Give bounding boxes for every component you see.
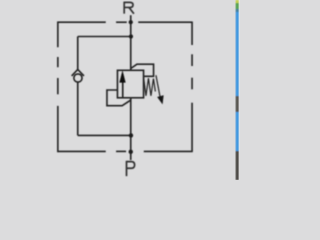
node B: junction dot bypass top [129,34,133,38]
wire: bypass branch top edge (node B to check valve line) [78,36,131,38]
relief valve U1: spring [144,78,156,96]
node A: junction dot at enclosure top [129,20,133,24]
page edge colour strip: green-blue transition [236,9,239,12]
wire: node B down to relief valve inlet [130,37,132,71]
page edge white margin at far right [239,0,240,180]
relief valve U1: pilot line loop bottom-left [107,90,131,106]
wire: R stem from port R to node A [130,15,132,22]
relief valve U1: body square [117,70,143,98]
page edge colour strip: green [236,3,239,9]
page edge colour strip: dark bottom [236,151,239,180]
check valve V1: ball [74,74,82,82]
relief valve U1: adjustment arrowhead [157,95,164,104]
page edge colour strip: dark segment mid [236,96,239,112]
check valve V1: seat [72,69,84,76]
wire: relief valve outlet down through node C to node D [130,98,132,152]
wire: node D to port P [130,152,132,160]
relief valve U1: flow path arrowhead [119,70,125,82]
relief valve U1: adjustment arrow shaft [156,75,160,97]
enclosure dashed border: right edge [191,22,193,152]
enclosure dashed border: top edge [57,21,192,23]
enclosure dashed border: bottom edge [57,150,193,152]
node D: junction dot at enclosure bottom [129,150,133,154]
wire: check valve branch lower segment [77,82,79,135]
wire: bypass branch bottom edge (to node C) [78,134,131,136]
relief valve U1: flow path arrow shaft [122,79,124,98]
port label R [124,2,134,14]
page edge colour strip: blue upper [236,12,239,96]
port label P [127,161,135,176]
page edge colour strip: blue lower [236,112,239,151]
relief valve U1: pilot line loop top-right [131,64,154,76]
page edge colour strip: yellow-green top [236,0,239,3]
wire: check valve branch upper segment [77,37,79,70]
enclosure dashed border: left edge [57,22,59,153]
node C: junction dot bypass bottom [129,133,133,137]
wire: node A to node B [130,22,132,36]
